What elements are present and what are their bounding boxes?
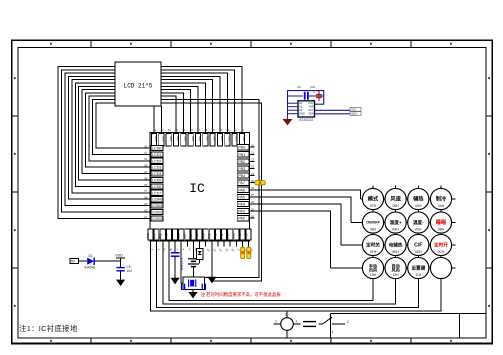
svg-text:注 若对时间精度要求不高，可不接此晶振: 注 若对时间精度要求不高，可不接此晶振 bbox=[201, 291, 282, 298]
svg-text:+: + bbox=[170, 248, 172, 252]
wire LCD right pin 3 to IC top pin 11 bbox=[161, 73, 227, 132]
IC bottom pin 3 box bbox=[160, 229, 165, 240]
IC bottom pin 16 box bbox=[240, 229, 245, 240]
ground under crystal box bbox=[188, 290, 197, 299]
key button S15 设置键 bbox=[408, 257, 429, 278]
key button S1 模式 bbox=[362, 188, 383, 209]
IC top pin 11 box bbox=[225, 134, 230, 146]
IC right pin 2 box PB1 bbox=[237, 152, 249, 157]
wire EEPROM inner vcc line bbox=[288, 95, 304, 97]
svg-text:S05: S05 bbox=[205, 136, 209, 142]
wire LCD right pin 8 to IC top pin 6 bbox=[161, 90, 191, 133]
frame zone number mark top x211 bbox=[210, 43, 212, 45]
IC right pin 1 stub bbox=[250, 146, 255, 148]
svg-text:23: 23 bbox=[251, 165, 255, 169]
svg-text:PA4: PA4 bbox=[238, 203, 245, 207]
wire LCD bottom pin b to IC top pin 2 bbox=[160, 106, 162, 133]
svg-text:IN4148: IN4148 bbox=[85, 265, 96, 269]
LCD module body bbox=[115, 62, 161, 106]
key button S5 ON/OFF bbox=[362, 212, 383, 233]
IC bottom pin 14 stub bbox=[229, 241, 231, 247]
svg-text:设置键: 设置键 bbox=[411, 265, 425, 272]
svg-text:S11: S11 bbox=[161, 136, 165, 141]
svg-text:34: 34 bbox=[219, 128, 223, 132]
svg-text:电辅热: 电辅热 bbox=[389, 242, 403, 249]
svg-text:A1: A1 bbox=[299, 105, 303, 109]
capacitor symbol in title row bbox=[303, 322, 316, 327]
IC right pin 9 box PA4 bbox=[237, 201, 249, 206]
svg-text:风向: 风向 bbox=[392, 267, 400, 273]
svg-text:GND: GND bbox=[299, 112, 305, 116]
wire LCD left pin 10 to IC left pin 3 bbox=[89, 96, 150, 161]
IC top pin 4 box bbox=[173, 134, 178, 146]
svg-text:P09: P09 bbox=[201, 233, 205, 239]
svg-text:PB3: PB3 bbox=[238, 167, 245, 171]
IC right pin 1 box PB0 bbox=[237, 145, 249, 150]
svg-text:24: 24 bbox=[251, 172, 255, 176]
svg-text:定时开: 定时开 bbox=[434, 242, 448, 249]
IC bottom pin 14 box bbox=[228, 229, 233, 240]
svg-text:22: 22 bbox=[251, 158, 255, 162]
svg-text:COM3: COM3 bbox=[152, 217, 163, 221]
frame zone number mark bottom x451 bbox=[450, 340, 452, 342]
svg-text:风向: 风向 bbox=[369, 267, 377, 273]
diode D2 in package box bbox=[194, 247, 203, 264]
ground under C5 bbox=[116, 280, 125, 286]
wire LCD right pin 1 to IC top pin 13 bbox=[161, 67, 242, 133]
IC top pin 7 box bbox=[195, 134, 200, 146]
keypad row 3 wire bbox=[341, 244, 456, 246]
svg-text:LCD0: LCD0 bbox=[152, 147, 161, 151]
wire LCD left pin 9 to IC left pin 4 bbox=[86, 93, 150, 167]
IC bottom pin 13 box bbox=[222, 229, 227, 240]
IC top pin 2 box bbox=[159, 134, 164, 146]
power label VDD bbox=[115, 254, 125, 262]
svg-text:1: 1 bbox=[296, 320, 298, 324]
capacitor C2 polarized electrolytic bbox=[170, 247, 184, 278]
frame zone divider bottom x411 bbox=[410, 338, 412, 344]
IC right pin 3 box PB2 bbox=[237, 159, 249, 164]
svg-text:13H: 13H bbox=[370, 273, 377, 277]
IC left pin 6 box LCD5 bbox=[151, 177, 163, 182]
connector P1 port box bbox=[70, 259, 79, 264]
svg-text:P15: P15 bbox=[238, 233, 242, 239]
IC bottom pin 7 box bbox=[185, 229, 190, 240]
key button S6 温度+ bbox=[385, 212, 406, 233]
svg-text:C6: C6 bbox=[297, 85, 301, 89]
IC top pin 12 box bbox=[232, 134, 237, 146]
svg-text:S00: S00 bbox=[242, 136, 246, 142]
IC left pin 4 box LCD3 bbox=[151, 165, 163, 170]
IC top pin 1 box bbox=[151, 134, 156, 146]
IC left pin 8 box LCD7 bbox=[151, 190, 163, 195]
resistor R1 yellow on IC right pin PA7 bbox=[255, 181, 266, 185]
svg-text:0BH: 0BH bbox=[438, 228, 445, 232]
svg-text:LCD6: LCD6 bbox=[152, 185, 161, 189]
crystal Y1 oscillator box bbox=[183, 277, 205, 290]
svg-text:104: 104 bbox=[310, 85, 315, 89]
IC left pin 12 box COM3 bbox=[151, 216, 163, 221]
wire EEPROM VCC loop bbox=[288, 91, 324, 105]
svg-text:57: 57 bbox=[144, 189, 148, 193]
key button S11 C/F bbox=[408, 234, 429, 255]
frame zone divider bottom x91 bbox=[90, 338, 92, 344]
frame zone divider right y116 bbox=[486, 115, 492, 117]
svg-text:S09: S09 bbox=[176, 136, 180, 142]
svg-text:12H: 12H bbox=[392, 273, 399, 277]
svg-text:60: 60 bbox=[144, 208, 148, 212]
frame zone divider top x411 bbox=[410, 40, 412, 47]
ground maroon under EEPROM rail bbox=[283, 119, 293, 125]
frame zone number mark top x131 bbox=[130, 43, 132, 45]
IC bottom pin 17 stub bbox=[248, 241, 250, 247]
svg-text:11H: 11H bbox=[415, 273, 422, 277]
keypad column 2 wire and bottom bus loop to IC bottom pin bbox=[163, 186, 396, 305]
svg-text:+: + bbox=[313, 90, 315, 94]
svg-text:定时关: 定时关 bbox=[366, 242, 380, 249]
svg-text:LCD5: LCD5 bbox=[152, 179, 161, 183]
svg-text:0EH: 0EH bbox=[392, 250, 399, 254]
wire IC right pin to keypad row 1 bbox=[250, 190, 361, 199]
svg-text:VCC: VCC bbox=[308, 101, 314, 105]
svg-text:D1: D1 bbox=[89, 254, 93, 258]
IC left pin 7 box LCD6 bbox=[151, 184, 163, 189]
wire SCL to net label bbox=[315, 109, 351, 111]
IC bottom pin 12 box bbox=[215, 229, 220, 240]
wire IC right pin to keypad row 2 bbox=[250, 197, 351, 223]
wire LCD left pin 4 to IC left pin 9 bbox=[68, 76, 150, 199]
svg-text:54: 54 bbox=[144, 170, 148, 174]
IC bottom pin 7 stub bbox=[186, 241, 188, 247]
key button S2 风速 bbox=[385, 188, 406, 209]
IC bottom pin 16 stub bbox=[241, 241, 243, 247]
IC bottom pin 1 stub bbox=[150, 241, 152, 247]
wire LCD left pin 5 to IC left pin 8 bbox=[72, 80, 150, 193]
frame zone divider top x331 bbox=[330, 40, 332, 47]
IC right pin 5 stub bbox=[250, 175, 255, 177]
wire LCD right pin 9 to IC top pin 5 bbox=[161, 93, 183, 133]
svg-text:41: 41 bbox=[168, 128, 172, 132]
wire LCD left pin 2 to IC left pin 11 bbox=[61, 70, 150, 212]
IC left pin 5 box LCD4 bbox=[151, 171, 163, 176]
svg-text:59: 59 bbox=[144, 202, 148, 206]
svg-text:P07: P07 bbox=[189, 233, 193, 239]
wire IC pin to crystal box left bbox=[181, 247, 183, 284]
svg-text:31: 31 bbox=[241, 128, 245, 132]
svg-text:PA5: PA5 bbox=[238, 195, 245, 199]
AC source symbol circle bbox=[274, 311, 301, 338]
wire LCD right pin 10 to IC top pin 4 bbox=[161, 96, 176, 132]
frame zone number mark left y306 bbox=[14, 305, 16, 307]
capacitor C4 crystal load right bbox=[202, 284, 205, 290]
svg-text:51: 51 bbox=[144, 151, 148, 155]
svg-text:43: 43 bbox=[153, 128, 157, 132]
keypad column 3 wire and bottom bus loop to IC bottom pin bbox=[157, 186, 419, 308]
svg-text:AT24C02: AT24C02 bbox=[299, 118, 313, 122]
key button S12 定时开 bbox=[430, 234, 451, 255]
frame zone number mark top x371 bbox=[370, 43, 372, 45]
IC bottom pin 2 stub bbox=[156, 241, 158, 247]
svg-text:温度-: 温度- bbox=[413, 219, 424, 226]
svg-text:PA6: PA6 bbox=[238, 188, 245, 192]
EEPROM U2 pin names bbox=[299, 101, 314, 116]
svg-text:32: 32 bbox=[234, 128, 238, 132]
net label SCL bbox=[350, 108, 361, 112]
LED D3 yellow indicator bbox=[241, 247, 245, 259]
svg-text:SCL: SCL bbox=[308, 108, 314, 112]
svg-text:P05: P05 bbox=[177, 233, 181, 239]
svg-text:2: 2 bbox=[285, 312, 287, 316]
switch symbol in title row bbox=[319, 313, 350, 333]
svg-text:55: 55 bbox=[144, 176, 148, 180]
IC right pin 4 box PB3 bbox=[237, 166, 249, 171]
svg-text:S07: S07 bbox=[191, 136, 195, 142]
frame zone number mark right y78 bbox=[488, 77, 490, 79]
IC right pin 6 box PA7 bbox=[237, 180, 249, 185]
svg-text:IC: IC bbox=[189, 181, 205, 196]
svg-text:SDA: SDA bbox=[351, 112, 357, 116]
svg-text:P11: P11 bbox=[214, 233, 218, 238]
svg-text:S06: S06 bbox=[198, 136, 202, 142]
svg-text:0FH: 0FH bbox=[370, 250, 377, 254]
frame zone number mark right y154 bbox=[488, 153, 490, 155]
keypad column 1 wire and bottom bus loop to IC bottom pin bbox=[169, 186, 373, 301]
svg-text:04H: 04H bbox=[438, 204, 445, 208]
frame zone divider left y268 bbox=[12, 267, 18, 269]
frame zone number mark left y78 bbox=[14, 77, 16, 79]
svg-text:PB1: PB1 bbox=[238, 153, 245, 157]
frame zone number mark left y230 bbox=[14, 229, 16, 231]
svg-text:08H: 08H bbox=[370, 228, 377, 232]
IC right pin 2 stub bbox=[250, 153, 255, 155]
wire C7 bottom to chip top bbox=[318, 101, 320, 104]
key button S9 定时关 bbox=[362, 234, 383, 255]
svg-text:37: 37 bbox=[197, 128, 201, 132]
IC bottom pin 11 box bbox=[209, 229, 214, 240]
IC bottom pin 15 stub bbox=[235, 241, 237, 247]
IC bottom pin 3 stub bbox=[162, 241, 164, 247]
frame zone number mark bottom x211 bbox=[210, 340, 212, 342]
IC right pin 7 box PA6 bbox=[237, 187, 249, 192]
svg-text:61: 61 bbox=[144, 215, 148, 219]
svg-text:ON/OFF: ON/OFF bbox=[366, 221, 380, 225]
IC right pin 11 stub bbox=[250, 217, 255, 219]
IC bottom pin 8 stub bbox=[192, 241, 194, 247]
IC left pin 2 box LCD1 bbox=[151, 152, 163, 157]
title block divider 1 bbox=[330, 314, 332, 339]
wire SDA to net label bbox=[315, 113, 351, 115]
capacitor C3 crystal load left bbox=[182, 284, 185, 290]
wire LCD left pin 12 to IC left pin 1 bbox=[96, 103, 150, 148]
frame zone divider bottom x331 bbox=[330, 338, 332, 344]
svg-text:2: 2 bbox=[347, 320, 349, 324]
IC bottom pin 15 box bbox=[234, 229, 239, 240]
svg-text:0DH: 0DH bbox=[415, 250, 422, 254]
IC right pin 9 stub bbox=[250, 203, 255, 205]
svg-text:09H: 09H bbox=[415, 228, 422, 232]
svg-text:S01: S01 bbox=[235, 136, 239, 142]
svg-text:S12: S12 bbox=[154, 136, 158, 142]
frame zone number mark bottom x291 bbox=[290, 340, 292, 342]
wire diode to battery junction bbox=[196, 263, 200, 265]
key button S14 自动风向 bbox=[385, 257, 406, 278]
svg-text:注1：IC衬底接地: 注1：IC衬底接地 bbox=[19, 324, 78, 333]
IC left pin 11 box COM2 bbox=[151, 209, 163, 214]
svg-text:P13: P13 bbox=[226, 233, 230, 239]
svg-text:PB0: PB0 bbox=[238, 146, 245, 150]
wire LCD left pin 1 to IC left pin 12 bbox=[58, 67, 150, 219]
svg-text:P02: P02 bbox=[158, 233, 162, 239]
svg-text:58: 58 bbox=[144, 196, 148, 200]
diode D1 IN4148 bbox=[85, 254, 96, 269]
svg-text:LCD1: LCD1 bbox=[152, 153, 161, 157]
svg-text:56: 56 bbox=[144, 183, 148, 187]
key button S16 spare bbox=[430, 257, 451, 278]
svg-text:辅热: 辅热 bbox=[413, 195, 424, 203]
frame zone divider bottom x251 bbox=[250, 338, 252, 344]
IC right pin 10 stub bbox=[250, 210, 255, 212]
IC right pin 7 stub bbox=[250, 189, 255, 191]
IC bottom pin 11 stub bbox=[211, 241, 213, 247]
svg-text:PA3: PA3 bbox=[238, 210, 245, 214]
ground under IC pin 13 bbox=[207, 247, 216, 284]
svg-text:P08: P08 bbox=[195, 233, 199, 239]
svg-text:P06: P06 bbox=[183, 233, 187, 239]
wire LCD right pin 7 to IC top pin 7 bbox=[161, 86, 198, 132]
svg-text:36: 36 bbox=[204, 128, 208, 132]
wire diode to VDD node bbox=[94, 260, 120, 262]
IC left pin 9 box COM0 bbox=[151, 197, 163, 202]
IC right pin 4 stub bbox=[250, 168, 255, 170]
frame zone number mark right y306 bbox=[488, 305, 490, 307]
svg-text:COM0: COM0 bbox=[152, 198, 163, 202]
frame zone number mark left y154 bbox=[14, 153, 16, 155]
svg-text:P16: P16 bbox=[244, 233, 248, 239]
LED D4 yellow indicator bbox=[247, 247, 251, 259]
frame zone number mark top x51 bbox=[50, 43, 52, 45]
svg-text:S02: S02 bbox=[227, 136, 231, 142]
frame zone number mark top x291 bbox=[290, 43, 292, 45]
IC right pin 10 box PA3 bbox=[237, 209, 249, 214]
svg-text:S04: S04 bbox=[213, 136, 217, 142]
IC right pin 6 stub bbox=[250, 182, 255, 184]
svg-text:LCD4: LCD4 bbox=[152, 172, 161, 176]
IC bottom pin 10 box bbox=[203, 229, 208, 240]
op IC U1 body bbox=[150, 133, 250, 242]
battery B1 backup cell bbox=[188, 247, 199, 278]
capacitor C7 polarized red bbox=[313, 90, 322, 100]
IC bottom pin 6 stub bbox=[180, 241, 182, 247]
IC bottom pin 10 stub bbox=[205, 241, 207, 247]
svg-text:52: 52 bbox=[144, 157, 148, 161]
key button S3 辅热 bbox=[408, 188, 429, 209]
frame zone number mark right y230 bbox=[488, 229, 490, 231]
frame zone divider bottom x171 bbox=[170, 338, 172, 344]
svg-text:S10: S10 bbox=[169, 136, 173, 142]
key button S13 手动风向 bbox=[362, 257, 383, 278]
frame zone divider top x171 bbox=[170, 40, 172, 47]
wires EEPROM address pins to ground rail bbox=[288, 103, 299, 119]
svg-text:模式: 模式 bbox=[368, 195, 379, 203]
svg-text:P01: P01 bbox=[152, 233, 156, 239]
wire LCD left pin 7 to IC left pin 6 bbox=[79, 86, 150, 180]
svg-text:A0: A0 bbox=[299, 101, 303, 105]
keypad row 2 wire bbox=[351, 222, 456, 224]
svg-text:0AH: 0AH bbox=[392, 228, 399, 232]
wire LCD left pin 8 to IC left pin 5 bbox=[82, 90, 150, 174]
IC left pin 3 box LCD2 bbox=[151, 158, 163, 163]
IC bottom pin 17 box bbox=[246, 229, 251, 240]
ground under C2 bbox=[171, 278, 180, 284]
key button S4 制冷 bbox=[430, 188, 451, 209]
frame zone number mark top x451 bbox=[450, 43, 452, 45]
svg-text:38: 38 bbox=[190, 128, 194, 132]
key button S8 睡眠 bbox=[430, 212, 451, 233]
IC bottom pin 9 box bbox=[197, 229, 202, 240]
IC bottom pin 13 stub bbox=[223, 241, 225, 247]
svg-text:PA7: PA7 bbox=[238, 181, 245, 185]
IC bottom pin 9 stub bbox=[199, 241, 201, 247]
svg-text:33: 33 bbox=[226, 128, 230, 132]
IC top pin 10 box bbox=[217, 134, 222, 146]
keypad row 1 wire bbox=[361, 198, 456, 200]
EEPROM U2 body bbox=[298, 101, 315, 117]
keypad column 4 wire and bottom bus loop to IC bottom pin bbox=[151, 186, 442, 312]
net label SDA bbox=[350, 112, 361, 116]
IC top pin 5 box bbox=[181, 134, 186, 146]
IC top pin 3 box bbox=[166, 134, 171, 146]
IC bottom pin 6 box bbox=[179, 229, 184, 240]
IC left pin 10 box COM1 bbox=[151, 203, 163, 208]
wire LCD right pin 6 to IC top pin 8 bbox=[161, 83, 205, 133]
svg-text:35: 35 bbox=[212, 128, 216, 132]
svg-text:20: 20 bbox=[251, 143, 255, 147]
IC bottom pin 5 stub bbox=[174, 241, 176, 247]
frame zone divider top x91 bbox=[90, 40, 92, 47]
key button S7 温度- bbox=[408, 212, 429, 233]
crystal Y1 symbol bbox=[189, 279, 196, 287]
wire port to diode D1 bbox=[79, 260, 88, 262]
svg-text:53: 53 bbox=[144, 164, 148, 168]
wire LCD left pin 6 to IC left pin 7 bbox=[75, 83, 150, 186]
IC bottom pin 2 box bbox=[154, 229, 159, 240]
wire LCD right pin 12 route down right side to ground node bbox=[161, 103, 262, 281]
IC bottom pin 8 box bbox=[191, 229, 196, 240]
wire LCD right pin 4 to IC top pin 10 bbox=[161, 76, 220, 132]
svg-text:P14: P14 bbox=[232, 233, 236, 239]
svg-text:42: 42 bbox=[160, 128, 164, 132]
wire LCD left pin 11 to IC left pin 2 bbox=[93, 100, 151, 155]
wire LCD right pin 2 to IC top pin 12 bbox=[161, 70, 235, 133]
title block top line bbox=[331, 313, 487, 315]
svg-text:S03: S03 bbox=[220, 136, 224, 142]
wire LCD right pin 5 to IC top pin 9 bbox=[161, 80, 213, 133]
svg-text:07H: 07H bbox=[370, 204, 377, 208]
svg-text:SDA: SDA bbox=[308, 112, 314, 116]
frame zone divider right y268 bbox=[486, 267, 492, 269]
title block divider 2 bbox=[459, 314, 461, 339]
svg-text:VDD: VDD bbox=[115, 254, 123, 258]
IC bottom pin 1 box bbox=[148, 229, 153, 240]
svg-text:LCD7: LCD7 bbox=[152, 191, 161, 195]
wire IC right pin to keypad row 4 bbox=[250, 211, 331, 268]
svg-text:40: 40 bbox=[175, 128, 179, 132]
svg-text:LCD3: LCD3 bbox=[152, 166, 161, 170]
IC top pin 8 box bbox=[203, 134, 208, 146]
svg-text:温度+: 温度+ bbox=[390, 219, 402, 226]
svg-text:P10: P10 bbox=[208, 233, 212, 239]
wire LCD right pin 11 route down right side to crystal box bbox=[161, 100, 259, 278]
